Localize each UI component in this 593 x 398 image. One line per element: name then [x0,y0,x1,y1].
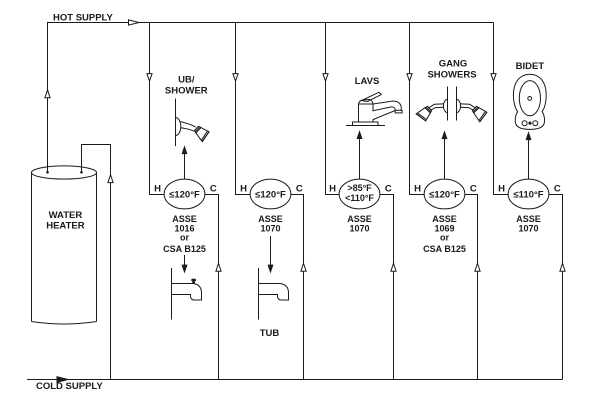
svg-text:1070: 1070 [518,224,538,234]
UB/SHOWER label [165,75,208,97]
lavatory faucet icon [346,92,402,125]
outlet down wire B2 [270,236,272,266]
hot drop arrow B2 [233,74,238,82]
hot drop arrow B5 [491,74,496,82]
svg-text:COLD SUPPLY: COLD SUPPLY [36,381,103,392]
svg-text:CSA B125: CSA B125 [423,244,466,254]
cold inlet dip tube wire [82,145,111,380]
mixing valve V3 [329,179,392,209]
svg-text:C: C [210,184,217,195]
tub spout B2 [259,268,289,320]
hot outlet node dot [46,171,49,174]
hot drop arrow B4 [407,74,412,82]
cold riser arrow B3 [391,263,396,271]
water heater tank [32,166,97,324]
hot drop wire B3 [326,23,340,195]
svg-text:SHOWER: SHOWER [165,85,208,96]
V2 standard label [258,214,283,234]
svg-text:<110°F: <110°F [345,193,374,203]
svg-text:H: H [154,184,161,195]
svg-text:≤120°F: ≤120°F [255,189,286,200]
shower head icon B1 [176,99,211,147]
svg-text:1070: 1070 [260,224,280,234]
hot riser arrow [45,90,50,98]
hot drop arrow B1 [147,74,152,82]
hot drop wire B5 [494,23,509,195]
cold riser wire B2 [291,195,304,380]
cold riser arrow B2 [301,263,306,271]
outlet arrow to shower [182,147,187,154]
cold riser wire B4 [465,195,478,380]
cold riser wire B1 [205,195,219,380]
hot drop arrow B3 [323,74,328,82]
outlet arrow to lav [357,132,362,139]
svg-text:C: C [296,184,303,195]
hot drop wire B2 [236,23,251,195]
gang showers icon [416,87,488,123]
cold riser wire B5 [549,195,563,380]
cold riser arrow B1 [216,263,221,271]
svg-text:CSA B125: CSA B125 [163,244,206,254]
outlet arrow to tub spout B2 [268,265,273,272]
mixed outlet up wire B4 [444,139,446,180]
svg-text:H: H [498,184,505,195]
svg-text:GANG: GANG [439,58,468,69]
mixing valve V1 [154,179,217,209]
svg-text:C: C [470,184,477,195]
svg-text:or: or [180,232,189,242]
hot supply flow arrow [129,20,140,25]
svg-text:H: H [240,184,247,195]
V3 standard label [347,214,372,234]
svg-text:WATER: WATER [49,210,83,221]
V1 standard label [163,214,206,254]
cold supply main wire [27,379,563,381]
svg-text:SHOWERS: SHOWERS [427,70,476,81]
svg-text:HOT SUPPLY: HOT SUPPLY [53,13,113,24]
cold riser arrow B5 [560,263,565,271]
mixing valve V5 [498,179,561,209]
svg-text:UB/: UB/ [178,75,195,86]
svg-text:ASSE: ASSE [347,214,372,224]
svg-text:C: C [385,184,392,195]
svg-text:H: H [329,184,336,195]
GANG SHOWERS label [427,58,476,80]
svg-text:ASSE: ASSE [258,214,283,224]
mixing valve V4 [414,179,477,209]
svg-text:≤110°F: ≤110°F [513,189,543,200]
cold riser arrow B4 [475,263,480,271]
mixed outlet up wire B3 [359,137,361,179]
bidet icon [513,74,546,129]
svg-text:≤120°F: ≤120°F [169,189,200,200]
svg-text:1070: 1070 [349,224,369,234]
outlet down wire B1 [184,255,186,266]
svg-text:TUB: TUB [260,328,280,339]
dip tube arrow [108,175,113,183]
svg-text:ASSE: ASSE [516,214,541,224]
V4 standard label [423,214,466,254]
V5 standard label [516,214,541,234]
svg-text:≤120°F: ≤120°F [429,189,460,200]
svg-text:C: C [554,184,561,195]
cold inlet node dot [80,171,83,174]
cold supply flow arrow [57,377,68,383]
svg-text:LAVS: LAVS [355,76,380,87]
svg-text:ASSE: ASSE [432,214,457,224]
mixed outlet up wire B1 [184,151,186,179]
mixing valve V2 [240,179,303,209]
outlet arrow to gang showers [442,132,447,139]
outlet arrow to tub spout B1 [182,265,187,272]
svg-text:>85°F: >85°F [347,183,372,193]
hot drop wire B1 [150,23,165,195]
svg-text:HEATER: HEATER [46,221,84,232]
svg-text:ASSE: ASSE [172,214,197,224]
cold riser wire B3 [380,195,394,380]
hot drop wire B4 [410,23,425,195]
hot supply main wire [48,23,494,173]
mixed outlet up wire B5 [528,140,530,180]
tub spout with diverter B1 [172,268,202,320]
outlet arrow to bidet [526,133,531,140]
svg-text:or: or [440,232,449,242]
svg-text:H: H [414,184,421,195]
svg-text:BIDET: BIDET [516,61,545,72]
